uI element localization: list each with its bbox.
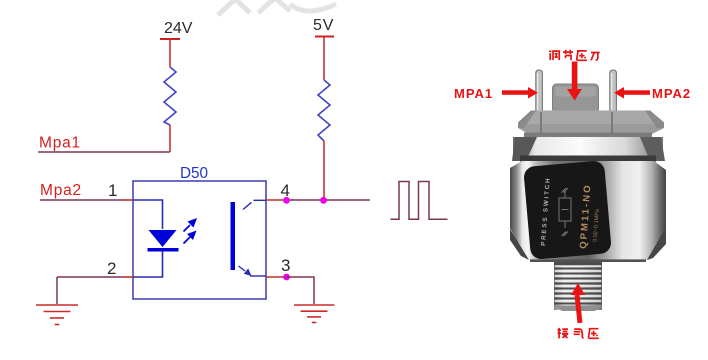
- photo: hex body: [510, 161, 666, 262]
- svg-text:D50: D50: [180, 165, 208, 182]
- phototransistor emitter: [239, 266, 267, 276]
- LED D50 triangle: [149, 230, 177, 247]
- photo: adjuster tab: [553, 84, 599, 113]
- wire 5V to R2: [323, 37, 325, 81]
- svg-text:Mpa1: Mpa1: [39, 135, 81, 152]
- wire 24V to R1: [169, 39, 171, 67]
- LED anode wire inside D50: [133, 200, 163, 229]
- photo: right terminal pin MPA2: [610, 70, 617, 114]
- resistor R2: [318, 80, 330, 141]
- wire pin3 to GND2: [286, 277, 314, 304]
- light arrow 1: [184, 218, 198, 232]
- wire R1 to Mpa1: [169, 125, 171, 152]
- annotation air inlet label (hand-drawn CJK strokes): [558, 328, 599, 339]
- svg-text:MPA2: MPA2: [652, 86, 691, 101]
- photo: body bottom edge: [530, 259, 646, 262]
- annotation up arrow: [571, 283, 585, 323]
- svg-text:2: 2: [107, 259, 116, 278]
- photo: collar top-left dark facet: [512, 137, 537, 161]
- photo: top cap plate: [518, 111, 664, 138]
- wire pin2 to GND1: [57, 276, 123, 278]
- svg-text:MPA1: MPA1: [454, 86, 493, 101]
- wire R2 to node: [323, 141, 325, 200]
- LED cathode bar: [148, 248, 179, 252]
- resistor R1: [164, 67, 176, 125]
- photo: body bottom-right dark wedge: [647, 227, 666, 260]
- svg-text:3: 3: [281, 256, 290, 275]
- pin 1 stub: [123, 199, 133, 201]
- pin 3 stub: [266, 276, 286, 278]
- svg-text:Mpa2: Mpa2: [40, 182, 82, 199]
- wire Mpa1: [38, 151, 170, 153]
- photo: shiny collar ring: [513, 137, 663, 161]
- phototransistor base bar: [231, 202, 236, 270]
- svg-text:24V: 24V: [164, 20, 193, 37]
- annotation down arrow: [567, 62, 582, 101]
- pin 2 stub: [123, 276, 133, 278]
- photo: black label panel: [523, 160, 612, 260]
- junction node R2: [320, 197, 327, 204]
- watermark: [218, 0, 336, 15]
- power port 24V label: [164, 20, 193, 37]
- photo: left terminal pin MPA1: [536, 70, 543, 114]
- photo: body bottom-left dark wedge: [510, 229, 529, 260]
- photo: collar top-right dark facet: [640, 137, 665, 161]
- wire pin4 to output: [286, 199, 370, 201]
- optocoupler U1 D50 box: [133, 181, 266, 299]
- square wave output symbol: [391, 182, 448, 220]
- annotation MPA1 arrow: [502, 87, 538, 99]
- power port 24V bar: [160, 38, 180, 40]
- phototransistor collector: [243, 200, 266, 209]
- photo: collar shadow stripe: [520, 156, 656, 162]
- photo: threaded fitting: [554, 262, 602, 311]
- wire Mpa2: [40, 199, 123, 201]
- annotation adjust pressure label (hand-drawn CJK strokes): [549, 50, 600, 61]
- ground GND2: [294, 305, 335, 323]
- power port 5V bar: [315, 36, 334, 38]
- GND1 riser: [56, 277, 58, 304]
- junction node pin3: [283, 274, 290, 281]
- svg-text:1: 1: [108, 181, 117, 200]
- svg-text:5V: 5V: [313, 17, 334, 34]
- junction node pin4: [283, 197, 290, 204]
- photo: label symbol: [559, 188, 571, 236]
- annotation MPA2 arrow: [614, 87, 650, 99]
- ground GND1: [36, 305, 78, 325]
- LED cathode wire: [133, 252, 163, 278]
- pin 4 stub: [266, 199, 286, 201]
- light arrow 2: [184, 231, 197, 244]
